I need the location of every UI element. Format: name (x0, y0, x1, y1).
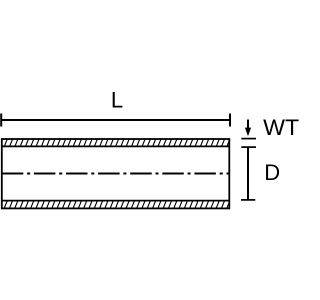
WT extension lines (241, 139, 256, 148)
D dimension line (247, 147, 249, 200)
WT arrow (247, 120, 249, 130)
D bottom extension line (241, 199, 255, 201)
tube body outline (2, 139, 230, 208)
centerline (2, 173, 230, 175)
svg-text:L: L (111, 87, 123, 112)
svg-text:D: D (264, 160, 280, 185)
bottom wall hatching (0, 201, 235, 208)
L dimension line (1, 114, 230, 127)
svg-text:WT: WT (263, 115, 299, 140)
top wall hatching (0, 139, 235, 146)
